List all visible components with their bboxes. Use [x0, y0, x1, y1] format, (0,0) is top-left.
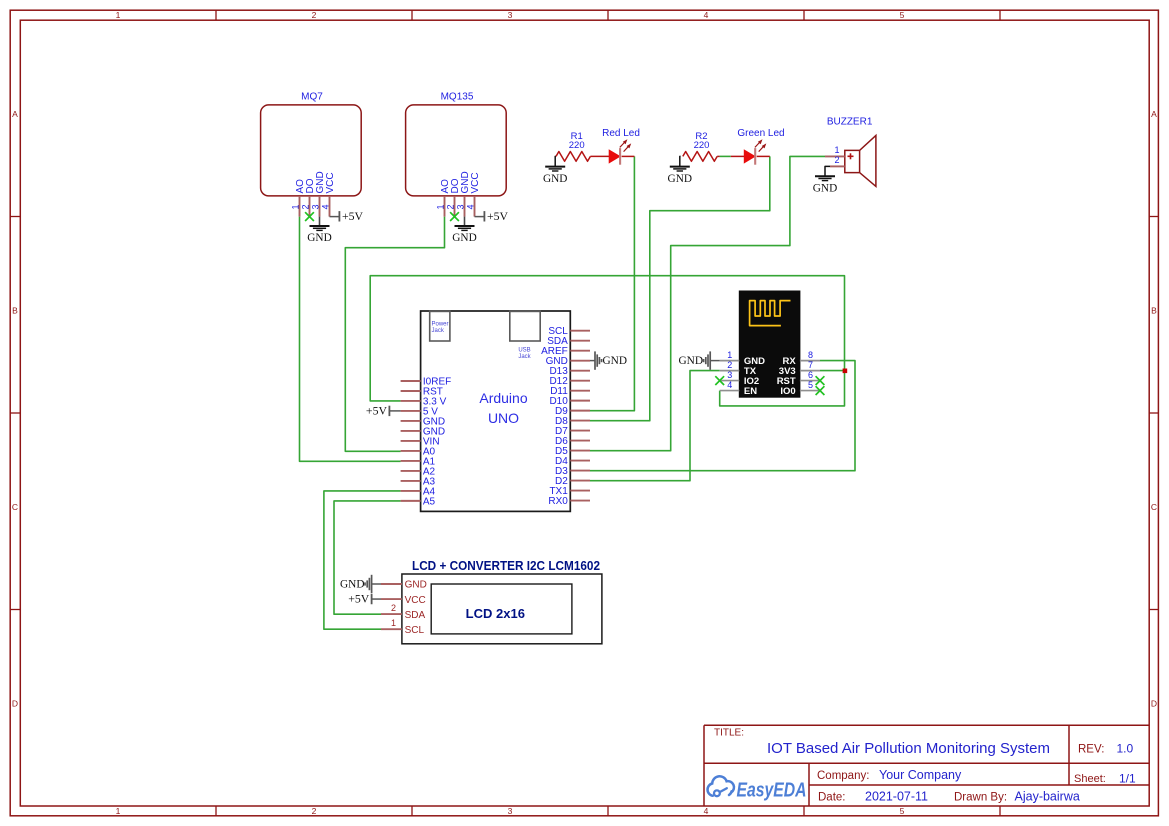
svg-text:VCC: VCC	[325, 172, 336, 193]
MQ135 pins 1-4	[435, 171, 481, 216]
LCD pins GND VCC SDA SCL	[381, 580, 427, 636]
ground at R1 left	[543, 156, 567, 185]
svg-text:Drawn By:: Drawn By:	[954, 791, 1007, 803]
svg-text:1: 1	[116, 10, 121, 20]
svg-text:5: 5	[900, 10, 905, 20]
svg-text:1: 1	[391, 618, 396, 628]
resistor R2 220	[683, 131, 720, 161]
svg-text:4: 4	[704, 806, 709, 816]
buzzer BUZZER1	[827, 117, 876, 187]
sensor MQ135	[406, 92, 507, 196]
wire R2 to Green Led segment	[720, 155, 731, 157]
svg-text:Company:: Company:	[817, 770, 869, 782]
title block Date / Drawn By	[818, 789, 1080, 803]
svg-text:IO0: IO0	[780, 386, 795, 397]
svg-text:Ajay-bairwa: Ajay-bairwa	[1015, 789, 1080, 803]
svg-text:Date:: Date:	[818, 791, 846, 803]
svg-text:Your Company: Your Company	[879, 768, 962, 782]
svg-text:220: 220	[569, 140, 585, 151]
svg-text:6: 6	[808, 370, 813, 380]
wire Arduino D8 to Green Led	[590, 156, 770, 420]
svg-text:8: 8	[808, 350, 813, 360]
svg-text:Arduino: Arduino	[479, 390, 527, 406]
svg-text:2: 2	[445, 204, 455, 209]
svg-text:SCL: SCL	[405, 625, 425, 636]
svg-text:A: A	[12, 109, 18, 119]
svg-text:D: D	[1151, 698, 1157, 708]
svg-text:3: 3	[455, 204, 465, 209]
svg-text:3: 3	[508, 806, 513, 816]
svg-text:2: 2	[391, 603, 396, 613]
ESP pin names	[744, 356, 796, 397]
svg-text:REV:: REV:	[1078, 744, 1104, 756]
svg-text:GND: GND	[603, 355, 627, 367]
svg-text:LCD 2x16: LCD 2x16	[466, 606, 525, 621]
wire 3V3 branch to ESP EN	[720, 371, 845, 406]
ESP left pins 1-4	[720, 350, 740, 391]
Arduino UNO U1 body	[421, 311, 571, 511]
svg-text:1: 1	[435, 204, 445, 209]
frame row labels	[12, 109, 1157, 709]
svg-text:VCC: VCC	[470, 172, 481, 193]
svg-text:+5V: +5V	[366, 403, 388, 417]
wire MQ7 AO to Arduino A1	[300, 217, 401, 462]
svg-text:+5V: +5V	[348, 592, 370, 606]
wire Arduino D9 to Red Led	[590, 156, 634, 410]
title block REV	[1078, 742, 1134, 756]
svg-text:GND: GND	[405, 580, 427, 591]
svg-text:GND: GND	[307, 232, 331, 244]
Arduino left pins	[401, 377, 452, 508]
svg-text:MQ135: MQ135	[441, 92, 474, 103]
svg-text:2: 2	[312, 806, 317, 816]
wire Arduino 3.3V to ESP 3V3	[370, 276, 844, 401]
svg-text:220: 220	[694, 140, 710, 151]
svg-text:C: C	[12, 502, 18, 512]
svg-text:D: D	[12, 698, 18, 708]
svg-text:GND: GND	[679, 355, 703, 367]
WiFi module U2 (ESP8266) body	[739, 291, 800, 397]
svg-text:B: B	[1151, 305, 1157, 315]
svg-text:Red Led: Red Led	[602, 128, 640, 139]
svg-text:MQ7: MQ7	[301, 92, 323, 103]
svg-text:RX0: RX0	[548, 496, 568, 507]
title block Company	[817, 768, 962, 782]
ground at BUZZER1 pin2	[813, 166, 837, 194]
svg-text:2021-07-11: 2021-07-11	[865, 789, 928, 803]
svg-text:1: 1	[834, 145, 839, 155]
junction dot 3V3/EN	[843, 369, 848, 374]
svg-text:EN: EN	[744, 386, 757, 397]
svg-text:SDA: SDA	[405, 610, 426, 621]
MQ135 no-connect X on DO	[450, 212, 459, 221]
svg-text:2: 2	[300, 204, 310, 209]
GND flag at LCD GND	[340, 575, 381, 593]
LCD module LCM1602	[402, 558, 602, 644]
svg-text:2: 2	[727, 360, 732, 370]
svg-text:+5V: +5V	[487, 209, 509, 223]
svg-text:GND: GND	[340, 579, 364, 591]
GND flag at Arduino GND (right)	[590, 351, 627, 369]
svg-text:2: 2	[312, 10, 317, 20]
svg-text:GND: GND	[813, 183, 837, 195]
Arduino power jack	[430, 311, 450, 341]
ground at R2 left	[668, 156, 692, 185]
svg-text:Green Led: Green Led	[737, 128, 784, 139]
diode Red Led	[602, 128, 640, 165]
svg-text:B: B	[12, 305, 18, 315]
+5V flag at MQ135 VCC	[475, 209, 509, 223]
Arduino right pins	[541, 326, 590, 507]
wire Arduino D3 to ESP RX	[590, 361, 855, 471]
EasyEDA logo	[708, 776, 807, 801]
ESP no-connect X IO0	[816, 386, 825, 395]
svg-text:TITLE:: TITLE:	[714, 728, 744, 739]
svg-text:4: 4	[465, 204, 475, 209]
svg-text:A: A	[1151, 109, 1157, 119]
svg-text:5: 5	[900, 806, 905, 816]
svg-text:VCC: VCC	[405, 595, 426, 606]
svg-text:GND: GND	[543, 173, 567, 185]
ESP right pins 8-5	[800, 350, 820, 391]
ground at MQ135 pin3	[452, 217, 476, 244]
BUZZER1 pins 1,2	[825, 145, 845, 167]
frame column labels	[116, 10, 905, 816]
title block Sheet	[1074, 771, 1136, 785]
ESP no-connect X IO2	[715, 376, 724, 385]
title block lines	[704, 725, 1149, 806]
+5V flag at LCD VCC	[348, 592, 381, 606]
GND flag at ESP pin1	[679, 351, 720, 369]
sensor MQ7	[261, 92, 362, 196]
MQ7 pins 1-4	[290, 171, 336, 216]
svg-text:BUZZER1: BUZZER1	[827, 117, 873, 128]
svg-text:Sheet:: Sheet:	[1074, 773, 1106, 785]
title block TITLE	[714, 728, 1050, 757]
svg-text:Jack: Jack	[518, 354, 531, 360]
svg-text:Jack: Jack	[432, 328, 445, 334]
svg-text:A5: A5	[423, 496, 436, 507]
svg-text:+5V: +5V	[342, 209, 364, 223]
svg-text:EasyEDA: EasyEDA	[737, 778, 807, 801]
svg-text:LCD + CONVERTER I2C LCM1602: LCD + CONVERTER I2C LCM1602	[412, 558, 600, 573]
ESP no-connect X RST	[816, 376, 825, 385]
svg-text:2: 2	[834, 155, 839, 165]
wire MQ135 AO to Arduino A0	[345, 217, 444, 452]
svg-text:IOT Based Air Pollution Monito: IOT Based Air Pollution Monitoring Syste…	[767, 741, 1050, 757]
wire Arduino A4 to LCD SCL	[324, 491, 401, 629]
ground at MQ7 pin3	[307, 217, 331, 244]
svg-text:1/1: 1/1	[1119, 771, 1136, 785]
svg-text:7: 7	[808, 360, 813, 370]
svg-text:4: 4	[320, 204, 330, 209]
svg-text:3: 3	[508, 10, 513, 20]
svg-text:USB: USB	[518, 347, 530, 353]
svg-text:1.0: 1.0	[1117, 742, 1134, 756]
svg-text:1: 1	[290, 204, 300, 209]
svg-text:4: 4	[704, 10, 709, 20]
wire Arduino D5 to BUZZER1 pin1	[590, 156, 825, 450]
MQ7 no-connect X on DO	[305, 212, 314, 221]
svg-text:3: 3	[310, 204, 320, 209]
svg-text:5: 5	[808, 380, 813, 390]
svg-text:1: 1	[727, 350, 732, 360]
Arduino USB jack	[510, 311, 540, 359]
wire Arduino A5 to LCD SDA	[334, 501, 401, 614]
svg-text:Power: Power	[432, 321, 449, 327]
diode Green Led	[731, 128, 785, 165]
+5V flag at Arduino 5V	[366, 403, 401, 417]
svg-text:GND: GND	[668, 173, 692, 185]
+5V flag at MQ7 VCC	[330, 209, 364, 223]
svg-text:UNO: UNO	[488, 410, 519, 426]
svg-text:4: 4	[727, 380, 732, 390]
svg-text:C: C	[1151, 502, 1157, 512]
resistor R1 220	[556, 131, 609, 161]
wire Arduino D2 to ESP TX	[590, 371, 720, 481]
svg-text:3: 3	[727, 370, 732, 380]
svg-text:1: 1	[116, 806, 121, 816]
svg-text:GND: GND	[452, 232, 476, 244]
